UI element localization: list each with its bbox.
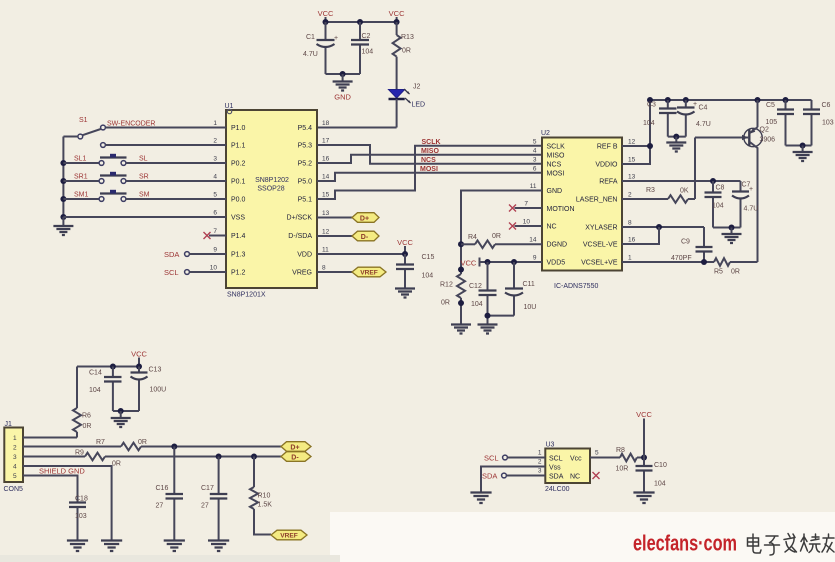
svg-text:VCSEL+VE: VCSEL+VE (581, 260, 618, 267)
capacitor C17 27 (201, 457, 227, 541)
no-connect X U2 pin7 MOTION (509, 205, 542, 212)
transistor Q2 3906 PNP (744, 100, 775, 262)
U1 right pin numbers (322, 120, 330, 272)
svg-text:SCL: SCL (164, 268, 179, 277)
svg-text:C6: C6 (822, 102, 831, 109)
wire U3 Vss pin2 to ground (481, 467, 545, 493)
wire J1 pin1 to R6 (23, 437, 77, 439)
power symbol VCC above C15 (397, 238, 413, 257)
svg-text:104: 104 (712, 203, 724, 210)
svg-text:U3: U3 (546, 442, 555, 449)
capacitor C14 104 (89, 367, 122, 412)
svg-text:C3: C3 (647, 102, 656, 109)
svg-text:27: 27 (201, 503, 209, 510)
svg-text:5: 5 (13, 473, 17, 480)
svg-text:10: 10 (210, 265, 218, 272)
svg-text:D-: D- (361, 234, 369, 241)
wire pin1 with SW-ENCODER label (105, 121, 226, 128)
connector J1 CON5 (4, 421, 24, 493)
svg-text:NC: NC (570, 474, 580, 481)
svg-text:SN8P1201X: SN8P1201X (227, 292, 266, 299)
svg-text:C10: C10 (654, 462, 667, 469)
svg-text:12: 12 (322, 229, 330, 236)
pushbutton SR1/SR (63, 172, 226, 184)
U1 right pin names (287, 125, 313, 277)
svg-text:SDA: SDA (482, 472, 497, 481)
svg-text:7: 7 (213, 228, 217, 235)
wire top VCC rail (326, 21, 397, 23)
svg-text:S1: S1 (79, 117, 88, 124)
wire XYLASER pin8 (622, 224, 704, 230)
svg-text:470PF: 470PF (671, 255, 692, 262)
svg-text:P1.3: P1.3 (231, 252, 246, 259)
svg-text:SCLK: SCLK (547, 144, 566, 151)
svg-text:+: + (749, 186, 753, 193)
svg-text:1: 1 (213, 120, 217, 127)
no-connect X U3 pin4 NC (593, 472, 600, 479)
svg-text:2: 2 (13, 445, 17, 452)
chip U1 SN8P1202 SSOP28 (225, 103, 318, 299)
svg-text:1: 1 (628, 255, 632, 262)
capacitor C3 104 (643, 100, 677, 137)
svg-text:103: 103 (75, 513, 87, 520)
svg-text:2: 2 (213, 138, 217, 145)
svg-text:R9: R9 (75, 450, 84, 457)
svg-text:XYLASER: XYLASER (585, 225, 617, 232)
watermark chinese 电子发烧友 (748, 534, 835, 556)
svg-text:24LC00: 24LC00 (545, 486, 570, 493)
ground under C16 (164, 541, 185, 552)
port D+ at U1 pin13 (317, 213, 379, 223)
svg-text:P1.4: P1.4 (231, 233, 246, 240)
ground under C10 (633, 493, 654, 504)
svg-text:SCL: SCL (484, 454, 499, 463)
wire C8/C7 bottom (713, 225, 741, 234)
wire P5.1 pin15 to U2 SCLK (317, 146, 542, 199)
wire C1-C2 bottom rail (326, 73, 361, 75)
ground under R12 (451, 325, 471, 334)
svg-text:10U: 10U (524, 304, 537, 311)
svg-text:0R: 0R (402, 48, 411, 55)
capacitor C11 10U polarized (505, 262, 536, 316)
LED J2 (389, 84, 426, 128)
resistor R4 0R to DGND pin14 (461, 233, 542, 248)
wire C3/C4 bottom (668, 134, 686, 142)
svg-text:17: 17 (322, 138, 330, 145)
svg-text:18: 18 (322, 120, 330, 127)
U1 left pin names (231, 125, 246, 277)
svg-text:GND: GND (547, 188, 563, 195)
switch S1 SW-ENCODER (63, 117, 105, 139)
capacitor C2 104 (351, 22, 373, 74)
ground under C17 (208, 541, 229, 552)
power symbol VCC (top left of C1) (318, 9, 334, 22)
node SCL to U3 pin1 (484, 454, 545, 463)
svg-text:D-/SDA: D-/SDA (288, 233, 312, 240)
svg-text:10: 10 (523, 219, 531, 226)
svg-text:16: 16 (628, 237, 636, 244)
svg-text:C18: C18 (75, 496, 88, 503)
svg-text:12: 12 (628, 139, 636, 146)
wire REFA pin13 (622, 178, 741, 184)
wire top-right VCC rail (647, 97, 812, 103)
svg-text:C12: C12 (469, 283, 482, 290)
svg-text:+: + (334, 35, 338, 42)
svg-text:4: 4 (533, 148, 537, 155)
svg-text:GND: GND (334, 93, 351, 102)
capacitor C4 4.7U polarized (677, 100, 711, 137)
svg-text:100U: 100U (150, 387, 167, 394)
capacitor C5 105 (766, 100, 795, 146)
ground under C14/C13 (111, 418, 131, 427)
svg-text:C17: C17 (201, 485, 214, 492)
svg-text:3: 3 (538, 468, 542, 475)
svg-text:16: 16 (322, 156, 330, 163)
svg-text:1.5K: 1.5K (258, 502, 273, 509)
port D+ bottom (281, 442, 311, 452)
svg-text:C1: C1 (306, 34, 315, 41)
svg-text:SL1: SL1 (74, 156, 87, 163)
svg-text:2: 2 (628, 192, 632, 199)
svg-text:R3: R3 (646, 187, 655, 194)
svg-text:14: 14 (322, 174, 330, 181)
svg-text:P5.1: P5.1 (298, 197, 313, 204)
svg-text:R6: R6 (82, 413, 91, 420)
wire REF B pin12 / VDDIO pin15 tie (622, 100, 653, 164)
svg-text:VSS: VSS (231, 215, 245, 222)
svg-text:8: 8 (322, 265, 326, 272)
svg-text:R8: R8 (616, 447, 625, 454)
svg-text:VCSEL-VE: VCSEL-VE (583, 242, 618, 249)
U2 right pin numbers (628, 139, 636, 262)
svg-text:104: 104 (471, 301, 483, 308)
capacitor C8 104 (705, 181, 725, 228)
svg-text:4.7U: 4.7U (696, 121, 711, 128)
resistor R6 0R (73, 367, 91, 438)
svg-text:R13: R13 (401, 34, 414, 41)
wire U2 GND pin11 down left rail (458, 191, 542, 275)
node junction dots on VCC rail (323, 19, 400, 25)
wire VDD pin11 to VCC node (317, 253, 405, 255)
svg-text:VCC: VCC (397, 238, 413, 247)
svg-text:P1.0: P1.0 (231, 125, 246, 132)
svg-text:104: 104 (654, 481, 666, 488)
svg-text:C11: C11 (523, 281, 535, 288)
svg-text:NCS: NCS (547, 161, 562, 168)
svg-text:SW-ENCODER: SW-ENCODER (107, 121, 155, 128)
U3 pin numbers (538, 450, 599, 475)
svg-text:MOSI: MOSI (547, 170, 565, 177)
capacitor C12 104 (469, 262, 497, 316)
ground under pin4 wire (101, 541, 122, 552)
node SDA to U3 pin3 (482, 472, 545, 481)
svg-text:0K: 0K (680, 188, 689, 195)
svg-text:C9: C9 (681, 239, 690, 246)
svg-text:Vss: Vss (549, 464, 561, 471)
svg-text:MOSI: MOSI (420, 166, 438, 173)
svg-text:6: 6 (533, 165, 537, 172)
svg-text:D+/SCK: D+/SCK (287, 215, 313, 222)
port D- at U1 pin12 (317, 231, 379, 241)
svg-text:SCL: SCL (549, 456, 563, 463)
svg-text:1: 1 (538, 450, 542, 457)
svg-text:27: 27 (156, 503, 164, 510)
wire J1 pin4 to ground (23, 466, 112, 540)
wire C5/C6 bottom (786, 143, 812, 152)
wire C14/C13 bottom (113, 408, 139, 418)
svg-text:4.7U: 4.7U (303, 51, 318, 58)
wire VCSEL+VE pin1 with R5 (622, 258, 758, 275)
svg-text:P0.2: P0.2 (231, 161, 246, 168)
svg-text:104: 104 (422, 273, 434, 280)
svg-text:5: 5 (213, 192, 217, 199)
svg-text:4: 4 (213, 174, 217, 181)
resistor R10 1.5K to VREF (250, 457, 272, 535)
svg-text:SDA: SDA (549, 474, 564, 481)
svg-text:R5: R5 (714, 269, 723, 276)
svg-text:VCC: VCC (636, 410, 652, 419)
svg-text:LASER_NEN: LASER_NEN (576, 197, 618, 204)
chip U2 IC-ADNS7550 (541, 130, 622, 290)
svg-text:104: 104 (89, 387, 101, 394)
power symbol VCC above C13 (131, 350, 147, 367)
power VCC tick at VDD5 pin9 (461, 258, 543, 268)
svg-text:elecfans·com: elecfans·com (633, 531, 737, 556)
node dot at GND tap (340, 71, 346, 77)
resistor R3 0K from LASER_NEN pin2 (622, 138, 695, 203)
svg-text:8: 8 (628, 220, 632, 227)
svg-text:VREF: VREF (280, 533, 298, 540)
svg-text:104: 104 (362, 49, 374, 56)
svg-text:VCC: VCC (131, 350, 147, 359)
svg-text:SR: SR (139, 174, 149, 181)
ground under C3/C4 (666, 143, 686, 152)
svg-text:C2: C2 (362, 33, 371, 40)
svg-text:SL: SL (139, 156, 148, 163)
U2 right pin names (576, 144, 618, 267)
power symbol VCC above C10 (636, 410, 652, 458)
svg-text:9: 9 (533, 255, 537, 262)
svg-text:5: 5 (595, 450, 599, 457)
svg-text:U2: U2 (541, 130, 550, 137)
svg-text:SM: SM (139, 192, 150, 199)
svg-text:10R: 10R (616, 466, 629, 473)
resistor R13 0R (393, 22, 414, 89)
svg-text:13: 13 (628, 174, 636, 181)
resistor R8 10R from U3 Vcc pin5 (590, 447, 647, 473)
wire C11 bottom to C12 bottom (485, 313, 515, 324)
svg-text:P5.4: P5.4 (298, 125, 313, 132)
wire pin18 P5.4 to LED (317, 127, 397, 129)
svg-text:SR1: SR1 (74, 174, 88, 181)
svg-text:C8: C8 (716, 185, 725, 192)
U2 left pin numbers (523, 139, 537, 262)
svg-text:P5.3: P5.3 (298, 143, 313, 150)
svg-text:P1.1: P1.1 (231, 143, 246, 150)
pushbutton SM1/SM (63, 190, 226, 202)
svg-text:103: 103 (822, 120, 834, 127)
svg-text:6: 6 (213, 210, 217, 217)
svg-text:LED: LED (412, 102, 426, 109)
ground under C8/C7 (722, 234, 742, 243)
svg-text:3: 3 (13, 454, 17, 461)
svg-text:CON5: CON5 (4, 486, 24, 493)
ground under C12 (478, 325, 498, 334)
ground under C5/C6 (793, 152, 813, 161)
svg-text:D+: D+ (290, 444, 299, 451)
U1 left pin numbers (210, 120, 218, 272)
svg-text:D+: D+ (360, 215, 369, 222)
svg-text:C13: C13 (149, 367, 162, 374)
svg-text:3: 3 (533, 156, 537, 163)
svg-text:7: 7 (524, 201, 528, 208)
chip U3 24LC00 (545, 442, 590, 494)
svg-text:SHIELD GND: SHIELD GND (39, 467, 85, 476)
svg-text:11: 11 (530, 183, 537, 190)
svg-text:0R: 0R (83, 423, 92, 430)
pushbutton SL1/SL (63, 154, 226, 166)
capacitor C15 104 (396, 254, 434, 288)
U2 left pin names (547, 144, 575, 267)
svg-text:P0.0: P0.0 (231, 197, 246, 204)
svg-text:4: 4 (13, 464, 17, 471)
svg-text:DGND: DGND (547, 242, 568, 249)
svg-text:MISO: MISO (547, 153, 565, 160)
svg-text:5: 5 (533, 139, 537, 146)
svg-text:P5.2: P5.2 (298, 161, 313, 168)
svg-text:13: 13 (322, 210, 330, 217)
svg-text:104: 104 (643, 120, 655, 127)
svg-text:MISO: MISO (421, 148, 439, 155)
svg-text:D-: D- (291, 454, 299, 461)
svg-text:9: 9 (213, 247, 217, 254)
svg-text:P0.1: P0.1 (231, 179, 246, 186)
node SDA to pin9 (164, 250, 226, 259)
svg-text:Vcc: Vcc (570, 456, 582, 463)
port VREF at U1 pin8 (317, 267, 386, 277)
svg-text:VDD: VDD (297, 252, 312, 259)
svg-text:+: + (693, 101, 697, 108)
svg-text:C5: C5 (766, 102, 775, 109)
capacitor C9 470PF (671, 227, 713, 262)
ground bus left (60, 137, 66, 221)
svg-text:P1.2: P1.2 (231, 270, 246, 277)
svg-text:SSOP28: SSOP28 (257, 186, 284, 193)
svg-text:VCC: VCC (461, 259, 477, 268)
svg-text:R7: R7 (96, 439, 105, 446)
wire VCC rail to C14/C13 (77, 364, 142, 370)
ground under left bus (53, 217, 73, 235)
svg-text:2: 2 (538, 459, 542, 466)
svg-text:1: 1 (13, 435, 17, 442)
svg-text:J1: J1 (5, 421, 13, 428)
svg-text:VCC: VCC (318, 9, 334, 18)
svg-text:0R: 0R (731, 269, 740, 276)
wire J1 pin3 with resistor R9 0R to D- (23, 450, 281, 468)
svg-text:3: 3 (213, 156, 217, 163)
svg-text:105: 105 (766, 119, 778, 126)
power symbol VCC (above R13) (389, 9, 405, 22)
svg-text:15: 15 (322, 192, 330, 199)
svg-text:C15: C15 (422, 254, 435, 261)
capacitor C16 27 (156, 447, 184, 541)
svg-text:0R: 0R (492, 233, 501, 240)
svg-text:4.7U: 4.7U (744, 206, 759, 213)
svg-text:0R: 0R (112, 461, 121, 468)
svg-text:VREG: VREG (292, 270, 312, 277)
U3 pin names (549, 456, 582, 481)
svg-text:VDD5: VDD5 (547, 260, 566, 267)
no-connect X U2 pin10 NC (509, 223, 542, 230)
svg-text:SDA: SDA (164, 250, 179, 259)
svg-text:3906: 3906 (760, 137, 776, 144)
wire J1 pin2 with resistor R7 0R to D+ (23, 439, 281, 450)
capacitor C7 4.7U polarized (732, 181, 758, 228)
svg-text:11: 11 (322, 247, 329, 254)
ground GND under C1/C2 (333, 74, 353, 102)
wire Q2 base from R3 net (695, 135, 748, 140)
svg-text:NCS: NCS (421, 157, 436, 164)
port D- bottom (281, 452, 311, 462)
svg-text:REFA: REFA (599, 179, 618, 186)
wire P5.0 pin14 to U2 MOSI (317, 173, 542, 181)
wire VCSEL-VE pin16 tie to pin8 (622, 227, 659, 244)
capacitor C1 4.7U polarized (303, 22, 338, 74)
svg-text:VDDIO: VDDIO (595, 162, 618, 169)
svg-text:Q2: Q2 (760, 127, 769, 134)
svg-text:IC-ADNS7550: IC-ADNS7550 (554, 283, 598, 290)
svg-text:P5.0: P5.0 (298, 179, 313, 186)
svg-text:R12: R12 (440, 282, 453, 289)
wire VSS pin6 (63, 216, 226, 218)
capacitor C13 100U polarized (131, 367, 167, 412)
svg-text:NC: NC (547, 224, 557, 231)
svg-text:VCC: VCC (389, 9, 405, 18)
svg-text:R10: R10 (258, 493, 271, 500)
resistor R12 0R (440, 274, 465, 324)
wire P5.2 pin16 to U2 MISO (317, 155, 542, 163)
port VREF bottom (271, 530, 307, 540)
svg-text:SCLK: SCLK (422, 139, 441, 146)
svg-text:14: 14 (529, 237, 537, 244)
wire J1 pin5 SHIELD GND to C18 (23, 467, 85, 503)
wire pin2 open circle (101, 143, 226, 148)
svg-text:C4: C4 (699, 105, 708, 112)
svg-text:0R: 0R (138, 439, 147, 446)
svg-text:R4: R4 (468, 234, 477, 241)
node SCL to pin10 (164, 268, 226, 277)
svg-text:C14: C14 (89, 370, 102, 377)
no-connect X pin7 P1.4 (204, 232, 227, 239)
ground under Vss (470, 493, 491, 504)
svg-text:VREF: VREF (360, 270, 378, 277)
svg-text:SM1: SM1 (74, 192, 89, 199)
svg-text:REF B: REF B (597, 144, 618, 151)
svg-text:C16: C16 (156, 485, 169, 492)
svg-text:J2: J2 (413, 84, 421, 91)
wire P5.3 pin17 to U2 NCS (317, 145, 542, 164)
svg-text:0R: 0R (441, 300, 450, 307)
capacitor C10 104 (636, 458, 667, 493)
ground under C18 (67, 541, 88, 552)
ground under C15 (395, 289, 415, 298)
svg-text:MOTION: MOTION (547, 206, 575, 213)
capacitor C6 103 (803, 100, 834, 146)
svg-text:SN8P1202: SN8P1202 (255, 177, 289, 184)
svg-text:15: 15 (628, 157, 636, 164)
capacitor C18 103 (69, 496, 88, 541)
